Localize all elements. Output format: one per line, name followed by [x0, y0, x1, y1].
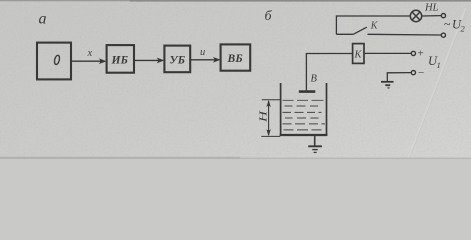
relay K box — [353, 44, 364, 64]
wire lamp loop left vertical — [335, 15, 337, 34]
label O — [54, 55, 61, 65]
switch K lever — [353, 27, 367, 34]
svg-text:УБ: УБ — [170, 54, 186, 66]
svg-text:а: а — [39, 11, 47, 28]
label U1 — [428, 54, 441, 70]
block ИБ — [107, 45, 134, 73]
page fold crease — [408, 8, 467, 159]
tank walls — [281, 83, 327, 135]
lamp HL — [410, 10, 421, 21]
paper background — [0, 0, 471, 159]
svg-text:В: В — [311, 74, 318, 85]
svg-text:б: б — [265, 9, 273, 24]
wire x: O to ИБ — [71, 58, 107, 64]
wire left to switch — [336, 33, 353, 35]
svg-text:К: К — [370, 21, 379, 32]
electrode B plate — [299, 90, 316, 93]
svg-text:HL: HL — [424, 2, 439, 13]
dimension H ticks — [262, 99, 280, 101]
svg-text:~: ~ — [444, 17, 451, 31]
block ВБ — [221, 44, 251, 70]
wire lamp to terminal — [422, 15, 442, 17]
svg-text:+: + — [418, 48, 424, 60]
terminal U2 bottom — [441, 33, 445, 37]
svg-text:ИБ: ИБ — [111, 55, 129, 67]
label ~U2 — [444, 17, 466, 33]
wire switch to terminal — [368, 33, 442, 36]
bottom scan edge — [0, 158, 471, 159]
svg-text:−: − — [418, 67, 424, 79]
terminal U1 minus — [411, 71, 415, 75]
svg-text:1: 1 — [437, 60, 441, 70]
water surface dashes — [283, 100, 326, 130]
block УБ — [164, 46, 190, 73]
wire relay to + terminal — [364, 52, 411, 54]
terminal U1 plus — [411, 51, 415, 55]
svg-text:Н: Н — [259, 110, 270, 124]
tank ground stem — [314, 135, 316, 146]
svg-text:К: К — [354, 49, 363, 60]
wire и: УБ to ВБ — [190, 57, 220, 63]
dimension H arrow — [266, 100, 270, 136]
svg-text:x: x — [87, 48, 93, 59]
ground (U1 side) — [381, 82, 394, 88]
wire relay to electrode — [306, 54, 352, 91]
svg-text:и: и — [200, 47, 205, 58]
wire ИБ to УБ — [134, 58, 164, 64]
ground (tank) — [308, 146, 322, 152]
wire lamp loop top — [336, 15, 410, 17]
terminal U2 top — [441, 14, 445, 18]
top scan edge — [0, 0, 471, 1]
wire minus to ground — [387, 73, 411, 81]
svg-text:ВБ: ВБ — [227, 53, 243, 65]
block O — [37, 43, 71, 80]
